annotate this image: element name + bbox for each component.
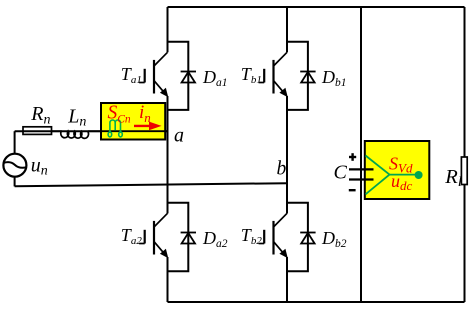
svg-text:Da2: Da2 (202, 228, 228, 250)
svg-text:Ta2: Ta2 (121, 225, 143, 247)
svg-text:Tb1: Tb1 (241, 64, 262, 86)
svg-text:b: b (277, 158, 287, 179)
svg-text:Ta1: Ta1 (121, 64, 142, 86)
svg-text:Tb2: Tb2 (241, 225, 263, 247)
svg-text:un: un (31, 154, 48, 178)
svg-text:Db2: Db2 (321, 228, 347, 250)
svg-text:Db1: Db1 (321, 67, 347, 89)
svg-text:Da1: Da1 (202, 67, 228, 89)
svg-text:a: a (174, 124, 184, 146)
svg-text:Rl: Rl (444, 166, 462, 190)
svg-text:C: C (334, 162, 348, 184)
svg-text:Ln: Ln (67, 105, 86, 129)
svg-text:Rn: Rn (30, 103, 50, 127)
